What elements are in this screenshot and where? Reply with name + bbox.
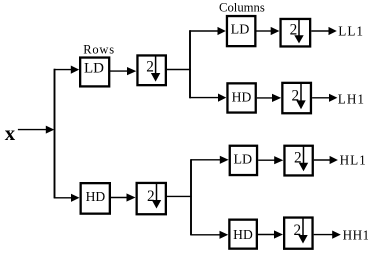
svg-text:x: x <box>5 122 16 145</box>
svg-text:Columns: Columns <box>219 1 265 15</box>
svg-text:LD: LD <box>233 153 252 168</box>
wire DS row2 to output LH1 <box>312 94 337 102</box>
downsampler DS1 <box>137 55 165 85</box>
wire LD1 to downsampler DS1 <box>110 67 136 75</box>
svg-text:HD: HD <box>232 89 252 104</box>
wire split to LD row1 <box>190 27 226 35</box>
wire DS2 to bottom split node <box>166 195 192 197</box>
wire LD row1 to DS row1 <box>257 27 280 35</box>
filter LD row1 <box>227 16 255 46</box>
svg-text:LD: LD <box>84 61 104 77</box>
downsampler DS row1 <box>281 19 311 47</box>
downsampler DS row3 <box>284 146 312 176</box>
wire DS row1 to output LL1 <box>311 27 337 35</box>
wire DS row4 to output HH1 <box>314 231 341 239</box>
wire HD row4 to DS row4 <box>258 230 283 238</box>
wire trunk to LD1 <box>54 66 79 74</box>
downsampler DS row2 <box>282 83 311 113</box>
wire trunk to HD1 <box>54 194 80 202</box>
wire LD row3 to DS row3 <box>258 156 283 164</box>
svg-text:Rows: Rows <box>83 43 115 57</box>
svg-text:LL1: LL1 <box>338 24 364 39</box>
downsampler DS2 <box>137 183 166 214</box>
wire HD row2 to DS row2 <box>257 94 281 102</box>
downsampler DS row4 <box>284 218 312 249</box>
svg-text:HH1: HH1 <box>343 228 368 243</box>
node bottom split vertical <box>190 159 192 235</box>
filter HD row2 <box>227 83 255 112</box>
wire input arrow <box>18 126 54 134</box>
svg-text:HD: HD <box>233 227 253 242</box>
wire HD1 to downsampler DS2 <box>111 193 136 201</box>
wire split to LD row3 <box>191 156 229 164</box>
svg-text:HL1: HL1 <box>340 153 367 168</box>
node top split vertical <box>189 30 191 98</box>
svg-text:LD: LD <box>231 23 250 38</box>
filter HD1 <box>81 183 110 214</box>
svg-text:LH1: LH1 <box>338 91 365 106</box>
wire DS1 to top split node <box>166 69 191 71</box>
wire DS row3 to output HL1 <box>314 156 338 164</box>
filter HD row4 <box>229 220 257 249</box>
filter LD row3 <box>230 146 257 175</box>
filter LD1 <box>80 58 109 87</box>
node trunk vertical <box>54 69 56 199</box>
wire split to HD row4 <box>191 231 228 239</box>
svg-text:HD: HD <box>86 189 106 204</box>
wire split to HD row2 <box>190 94 226 102</box>
